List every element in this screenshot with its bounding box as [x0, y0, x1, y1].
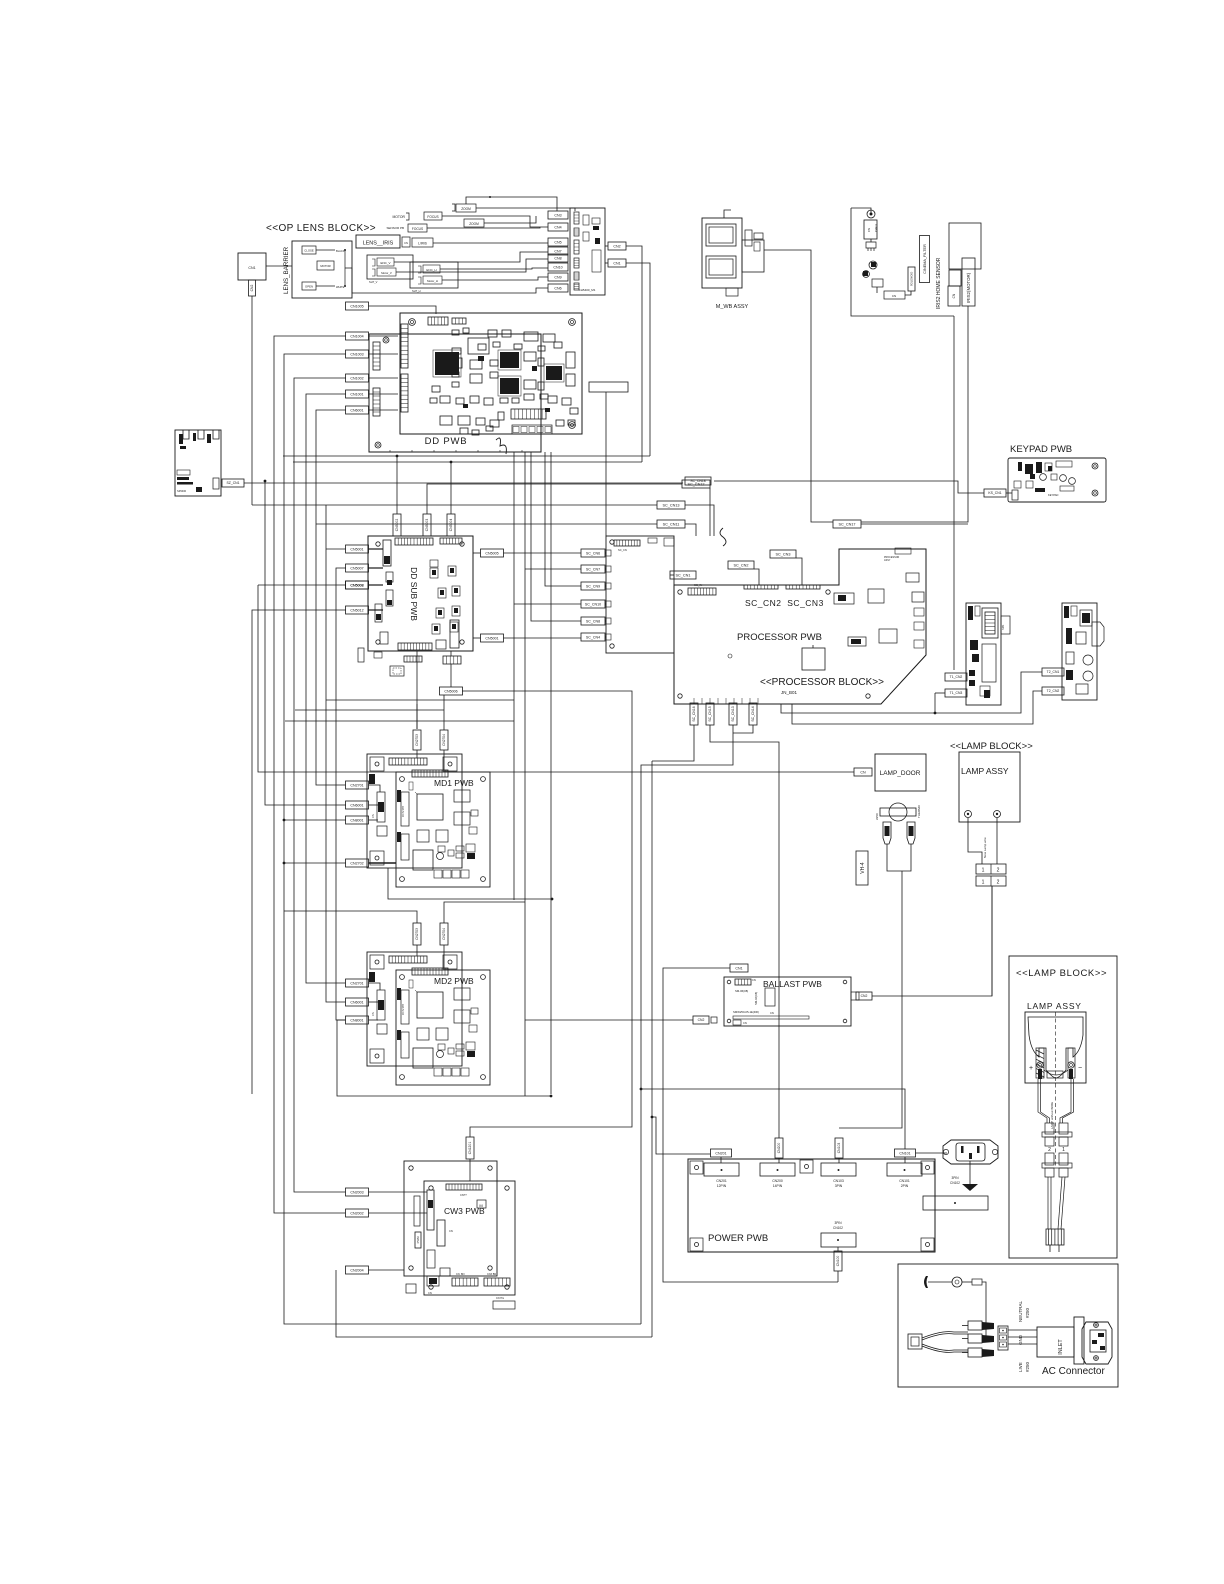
svg-text:LAMP ASSY: LAMP ASSY [1027, 1001, 1082, 1011]
svg-text:MOTOR: MOTOR [392, 215, 405, 219]
svg-text:SC_CN17: SC_CN17 [838, 522, 855, 526]
svg-text:<<LAMP BLOCK>>: <<LAMP BLOCK>> [1016, 968, 1107, 979]
svg-text:NEUTRAL: NEUTRAL [1018, 1300, 1023, 1322]
svg-text:CN2: CN2 [613, 244, 620, 248]
svg-text:ASSY: ASSY [884, 559, 891, 562]
svg-text:POWER PWB: POWER PWB [708, 1233, 768, 1244]
svg-text:CN2703: CN2703 [415, 734, 419, 746]
svg-text:KEYPAD: KEYPAD [1048, 493, 1058, 497]
svg-text:WHITE: WHITE [336, 285, 345, 289]
svg-text:DD SUB PWB: DD SUB PWB [409, 567, 419, 621]
svg-text:3PIN: 3PIN [951, 1176, 959, 1180]
svg-text:CN8001: CN8001 [350, 818, 363, 822]
svg-text:CN5004: CN5004 [449, 519, 453, 532]
svg-text:CN5001: CN5001 [485, 636, 498, 640]
svg-text:JN_B01: JN_B01 [781, 690, 798, 695]
svg-text:CN5006: CN5006 [444, 689, 457, 693]
svg-text:CN2702: CN2702 [350, 861, 363, 865]
svg-text:CN1201: CN1201 [468, 1142, 472, 1155]
svg-text:3PIN: 3PIN [835, 1184, 843, 1188]
svg-text:2: 2 [997, 868, 1000, 874]
svg-text:T2_CN2: T2_CN2 [1047, 689, 1060, 693]
svg-text:ZOOM: ZOOM [469, 222, 479, 226]
svg-text:CN5003: CN5003 [425, 519, 429, 532]
svg-text:SC_CN2: SC_CN2 [734, 563, 749, 567]
svg-text:CN200: CN200 [772, 1179, 783, 1183]
svg-text:CN??: CN?? [460, 1193, 467, 1197]
svg-text:SC_CN14: SC_CN14 [751, 706, 755, 721]
svg-text:INLET: INLET [1058, 1339, 1064, 1355]
svg-text:LIVE: LIVE [1018, 1362, 1023, 1372]
svg-text:SC_CN4: SC_CN4 [586, 635, 600, 639]
svg-text:CN2701: CN2701 [350, 981, 363, 985]
svg-text:#250: #250 [1025, 1307, 1030, 1318]
svg-text:CN1003: CN1003 [350, 352, 363, 356]
svg-text:KS_CN1: KS_CN1 [988, 491, 1001, 495]
svg-text:CN: CN [860, 770, 866, 774]
svg-text:SPK: SPK [1001, 625, 1005, 630]
svg-text:CN103: CN103 [833, 1179, 844, 1183]
svg-text:CN. BN: CN. BN [456, 1273, 465, 1276]
svg-text:−: − [1078, 1065, 1082, 1072]
svg-text:CN: CN [752, 978, 756, 982]
svg-text:M_WB ASSY: M_WB ASSY [716, 304, 749, 310]
svg-text:SMW250-05-1E(DR): SMW250-05-1E(DR) [733, 1010, 759, 1014]
svg-text:SC_CN10: SC_CN10 [585, 602, 601, 606]
svg-text:SC_CN15: SC_CN15 [708, 706, 712, 721]
svg-text:ENC_V: ENC_V [380, 261, 390, 265]
svg-text:14PIN: 14PIN [773, 1184, 783, 1188]
svg-text:CN2: CN2 [698, 1018, 705, 1022]
svg-text:CN2704: CN2704 [442, 928, 446, 940]
svg-text:<<PROCESSOR BLOCK>>: <<PROCESSOR BLOCK>> [760, 677, 884, 688]
svg-text:LENS_BARRIER: LENS_BARRIER [283, 246, 290, 294]
svg-text:GND: GND [1018, 1334, 1023, 1345]
svg-text:VH-4: VH-4 [860, 862, 866, 874]
svg-text:SC_CN11: SC_CN11 [663, 522, 680, 526]
svg-text:#250: #250 [1025, 1361, 1030, 1372]
svg-text:CN: CN [892, 294, 896, 298]
svg-text:ENC_H: ENC_H [426, 268, 436, 272]
svg-text:CN5012: CN5012 [350, 608, 363, 612]
svg-text:IRIS2(MOTOR): IRIS2(MOTOR) [966, 272, 971, 303]
svg-text:T1_CN2: T1_CN2 [950, 675, 963, 679]
svg-text:CN: CN [449, 1229, 453, 1233]
svg-text:1: 1 [982, 880, 985, 886]
svg-text:T1_CN3: T1_CN3 [950, 691, 963, 695]
svg-text:CN1005: CN1005 [350, 304, 363, 308]
svg-text:1: 1 [1062, 1147, 1065, 1153]
svg-text:BLACK: BLACK [336, 249, 345, 253]
svg-text:CN101: CN101 [899, 1179, 910, 1183]
svg-text:CN8: CN8 [554, 256, 561, 260]
svg-text:L/IRIS: L/IRIS [418, 242, 427, 246]
svg-text:FOCUS: FOCUS [427, 215, 438, 219]
svg-text:3PIN: 3PIN [834, 1221, 842, 1225]
svg-text:SC_CN: SC_CN [618, 548, 627, 552]
svg-text:CINEMA_FILTER: CINEMA_FILTER [923, 244, 927, 274]
svg-text:CN3 BN: CN3 BN [487, 1273, 496, 1276]
svg-text:12PIN: 12PIN [717, 1184, 727, 1188]
svg-text:CN6: CN6 [554, 286, 561, 290]
svg-text:SM-06(08): SM-06(08) [735, 989, 748, 993]
svg-text:SC_CN1: SC_CN1 [676, 573, 691, 577]
svg-text:SC_CN6: SC_CN6 [586, 551, 600, 555]
svg-text:CN200: CN200 [777, 1143, 781, 1154]
svg-text:CN1: CN1 [248, 266, 255, 270]
svg-text:CN: CN [371, 814, 375, 818]
svg-text:SC_CN3: SC_CN3 [776, 552, 791, 556]
svg-text:CN5007: CN5007 [350, 566, 363, 570]
svg-text:LENS__IRIS: LENS__IRIS [363, 241, 394, 247]
svg-text:CN: CN [952, 293, 956, 298]
svg-text:CN2701: CN2701 [350, 783, 363, 787]
svg-text:SHT_V: SHT_V [369, 280, 378, 284]
svg-text:OPEN: OPEN [305, 285, 313, 289]
svg-text:SC_IN: SC_IN [694, 583, 702, 587]
svg-text:<<LAMP BLOCK>>: <<LAMP BLOCK>> [950, 741, 1033, 752]
svg-text:MOTOR: MOTOR [320, 264, 330, 268]
svg-text:2PIN: 2PIN [901, 1184, 909, 1188]
svg-text:CN101: CN101 [899, 1151, 910, 1155]
svg-text:PROCESSOR PWB: PROCESSOR PWB [737, 632, 822, 643]
svg-text:+: + [1029, 1065, 1033, 1072]
svg-text:2: 2 [1048, 1147, 1051, 1153]
svg-text:CN1001: CN1001 [350, 392, 363, 396]
svg-text:SC_CN8: SC_CN8 [586, 619, 600, 623]
svg-text:CN HG: CN HG [496, 1297, 504, 1300]
svg-text:CN201: CN201 [716, 1179, 727, 1183]
svg-text:CN5: CN5 [554, 240, 561, 244]
svg-text:SC_CN13: SC_CN13 [662, 503, 679, 507]
svg-text:PHR-3: PHR-3 [874, 224, 878, 232]
svg-text:CN5008: CN5008 [350, 583, 363, 587]
svg-text:SC_CN12: SC_CN12 [687, 482, 704, 486]
svg-text:Motor_H: Motor_H [427, 279, 438, 283]
svg-text:CN5005: CN5005 [485, 551, 498, 555]
svg-text:SC_CN16: SC_CN16 [692, 706, 696, 721]
svg-text:AY IN 5BY: AY IN 5BY [402, 1003, 405, 1015]
svg-text:SC_CN2 SC_CN3: SC_CN2 SC_CN3 [745, 598, 824, 608]
svg-text:SENSOR PB: SENSOR PB [386, 226, 404, 230]
svg-text:CN2: CN2 [250, 285, 254, 292]
svg-text:CN: CN [428, 1291, 432, 1295]
svg-text:CN: CN [371, 1012, 375, 1016]
svg-text:CN2: CN2 [861, 994, 868, 998]
svg-text:CLOSE: CLOSE [304, 249, 314, 253]
svg-text:BALLAST PWB: BALLAST PWB [763, 979, 822, 989]
svg-text:THERMO: THERMO [917, 804, 921, 818]
svg-text:CN100: CN100 [836, 1256, 840, 1267]
svg-text:CN1: CN1 [613, 261, 620, 265]
svg-text:<<OP LENS BLOCK>>: <<OP LENS BLOCK>> [266, 223, 376, 234]
svg-text:CN1004: CN1004 [350, 334, 363, 338]
svg-text:PWM: PWM [416, 1236, 420, 1244]
svg-text:M: M [479, 1203, 482, 1208]
svg-text:CN2703: CN2703 [415, 928, 419, 940]
svg-text:CH5400_M1: CH5400_M1 [579, 288, 596, 292]
svg-text:CN10: CN10 [553, 265, 562, 269]
svg-text:CN102: CN102 [950, 1181, 960, 1185]
svg-text:CN201: CN201 [715, 1151, 726, 1155]
svg-text:DD PWB: DD PWB [425, 436, 468, 447]
svg-text:CN: CN [743, 1021, 747, 1025]
svg-text:CN4: CN4 [554, 225, 561, 229]
svg-text:1: 1 [982, 868, 985, 874]
svg-text:CN2002: CN2002 [350, 1211, 363, 1215]
svg-text:CN2004: CN2004 [350, 1268, 363, 1272]
svg-text:CN6001: CN6001 [350, 1000, 363, 1004]
svg-text:SM-06(08): SM-06(08) [754, 992, 758, 1005]
svg-text:CN6001: CN6001 [350, 803, 363, 807]
svg-text:IRIS2 HOME SENSOR: IRIS2 HOME SENSOR [936, 257, 942, 309]
svg-text:AY IN 5BY: AY IN 5BY [402, 805, 405, 817]
svg-text:CN102: CN102 [833, 1226, 843, 1230]
svg-text:MD1 PWB: MD1 PWB [434, 778, 474, 788]
svg-text:New Lamp wire: New Lamp wire [983, 837, 987, 858]
svg-text:SHT_H: SHT_H [412, 289, 421, 293]
svg-text:CN2003: CN2003 [350, 1190, 363, 1194]
svg-text:2: 2 [997, 880, 1000, 886]
svg-text:SC_CN7: SC_CN7 [586, 567, 600, 571]
svg-text:CN2704: CN2704 [442, 734, 446, 746]
svg-text:CN3: CN3 [554, 213, 561, 217]
svg-text:CN103: CN103 [837, 1143, 841, 1154]
svg-text:SZ_CN1: SZ_CN1 [226, 481, 239, 485]
svg-text:MD2 PWB: MD2 PWB [434, 976, 474, 986]
svg-text:CN6001: CN6001 [350, 408, 363, 412]
svg-text:LAMP without WIRE: LAMP without WIRE [1050, 1102, 1054, 1129]
svg-text:LAMP_DOOR: LAMP_DOOR [880, 770, 921, 777]
svg-text:AC Connector: AC Connector [1042, 1366, 1105, 1377]
svg-text:Motor_V: Motor_V [381, 271, 392, 275]
svg-text:CN8001: CN8001 [350, 1018, 363, 1022]
svg-text:CN: CN [867, 228, 871, 232]
svg-text:SOLENOID: SOLENOID [909, 272, 913, 286]
svg-text:FOCUS: FOCUS [412, 227, 423, 231]
svg-text:CN: CN [404, 241, 408, 245]
svg-text:LAMP ASSY: LAMP ASSY [961, 766, 1009, 776]
svg-text:CN5002: CN5002 [395, 519, 399, 532]
svg-text:CN7: CN7 [554, 249, 561, 253]
svg-text:KEYPAD PWB: KEYPAD PWB [1010, 444, 1072, 455]
svg-text:SC_CN13: SC_CN13 [731, 706, 735, 721]
svg-text:CN1: CN1 [735, 966, 742, 970]
svg-text:T2_CN1: T2_CN1 [1047, 670, 1060, 674]
svg-text:ZOOM: ZOOM [461, 207, 471, 211]
svg-text:CN1002: CN1002 [350, 376, 363, 380]
svg-text:CN5001: CN5001 [350, 547, 363, 551]
svg-text:CN9: CN9 [554, 275, 561, 279]
svg-text:CN: CN [770, 1011, 774, 1015]
svg-text:SZ5400: SZ5400 [177, 489, 187, 493]
svg-text:#250: #250 [875, 813, 879, 820]
svg-text:SC_CN9: SC_CN9 [586, 584, 600, 588]
